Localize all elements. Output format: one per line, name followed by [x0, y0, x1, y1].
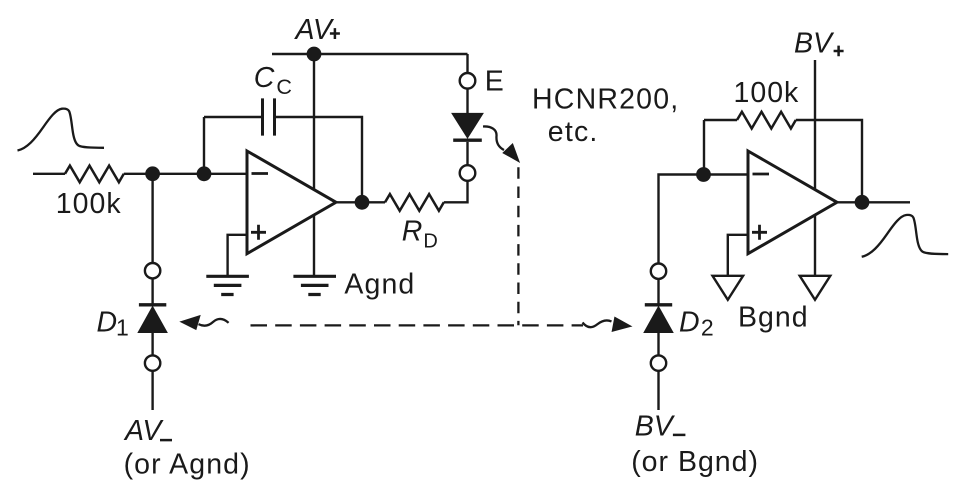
op-amp U2 plus sign: [752, 225, 767, 240]
wire op-amp U2 output: [837, 201, 910, 203]
resistor R_D: [385, 194, 444, 211]
ground arrow G4 (Bgnd): [800, 276, 831, 300]
op-amp U2 minus sign: [753, 173, 770, 176]
dashed line vertical (optical coupling): [517, 167, 519, 325]
terminal circle LED bottom: [460, 165, 476, 181]
wire AV+ rail horizontal: [272, 53, 468, 55]
node inverting input dot U2: [696, 167, 711, 182]
svg-text:E: E: [485, 66, 504, 98]
capacitor C_C feedback wire left: [204, 117, 263, 174]
svg-text:2: 2: [701, 315, 714, 341]
photodiode D1 triangle: [139, 308, 166, 332]
resistor 100k feedback wire right: [796, 120, 862, 202]
output waveform squiggle: [862, 215, 949, 257]
photodiode D2 cathode bar: [645, 303, 672, 306]
svg-text:BV: BV: [794, 28, 835, 60]
wire op-amp output: [336, 201, 385, 203]
svg-text:D: D: [679, 306, 700, 338]
svg-text:(or Agnd): (or Agnd): [124, 448, 251, 480]
op-amp U1: [247, 151, 336, 254]
wire AV+ rail vertical through op-amp: [313, 54, 315, 276]
wire input left: [33, 173, 65, 175]
svg-text:C: C: [276, 75, 292, 99]
node junction dot B: [197, 166, 212, 181]
wire non-inverting input U2 to ground: [728, 235, 748, 275]
wire non-inverting input to ground: [228, 235, 247, 276]
svg-text:HCNR200,: HCNR200,: [532, 84, 679, 116]
svg-text:etc.: etc.: [548, 116, 599, 148]
op-amp U1 minus sign: [252, 172, 269, 175]
terminal circle D1 bottom: [145, 355, 160, 370]
wire D2 to bottom circle: [657, 332, 659, 355]
svg-text:D: D: [97, 306, 118, 338]
resistor 100k input: [65, 166, 124, 183]
capacitor C_C plates: [263, 98, 275, 135]
svg-text:1: 1: [116, 315, 129, 341]
wire D2 bottom lead: [657, 371, 659, 410]
arrowhead down-right: [504, 144, 519, 161]
op-amp U1 plus sign: [251, 225, 266, 240]
photodiode D1 cathode bar: [139, 303, 166, 306]
input waveform squiggle: [18, 109, 105, 151]
terminal circle LED top: [460, 73, 476, 89]
svg-text:AV: AV: [294, 14, 335, 46]
svg-text:Agnd: Agnd: [344, 268, 415, 300]
node AV+ dot: [307, 47, 322, 62]
node junction dot A: [145, 166, 160, 181]
wire D1 branch vertical: [151, 174, 153, 263]
dashed line horizontal (optical coupling): [251, 324, 584, 326]
wire input node to op-amp: [124, 173, 247, 175]
node output dot U1: [355, 195, 370, 210]
ground G1: [206, 276, 249, 294]
node output dot U2: [855, 195, 870, 210]
wire inverting input U2: [704, 173, 749, 175]
svg-text:(or Bgnd): (or Bgnd): [631, 446, 759, 478]
LED E cathode bar: [453, 138, 482, 141]
wire D1 to bottom circle: [151, 332, 153, 355]
svg-text:Bgnd: Bgnd: [738, 301, 809, 333]
resistor 100k feedback: [737, 112, 796, 129]
wire LED anode lead: [466, 54, 468, 114]
squiggle arrow to D1: [199, 319, 229, 326]
wire circle to D1: [151, 278, 153, 304]
svg-text:R: R: [402, 216, 423, 248]
squiggle arrow to D2: [583, 321, 612, 328]
LED E triangle: [453, 114, 482, 137]
arrowhead right at D2: [613, 318, 631, 331]
terminal circle D2 top: [651, 264, 666, 279]
wire R_D to LED: [444, 181, 468, 203]
wire D2 branch horizontal: [659, 175, 704, 264]
arrowhead left at D1: [181, 316, 199, 329]
svg-text:100k: 100k: [734, 77, 800, 109]
wire BV+ rail vertical: [814, 60, 816, 276]
capacitor C_C feedback wire right: [275, 117, 363, 202]
svg-text:C: C: [254, 62, 275, 94]
wire D1 bottom lead: [151, 371, 153, 410]
wire LED cathode lead: [466, 142, 468, 165]
svg-text:D: D: [423, 231, 437, 253]
svg-text:BV: BV: [635, 411, 676, 443]
ground G2 (Agnd under op-amp): [293, 276, 336, 294]
squiggle arrow from LED to dashed line: [483, 126, 504, 150]
svg-text:100k: 100k: [56, 188, 122, 220]
photodiode D2 triangle: [645, 308, 672, 332]
ground arrow G3: [713, 276, 744, 300]
resistor 100k feedback wire left: [704, 120, 737, 175]
wire circle to D2: [657, 279, 659, 305]
terminal circle D2 bottom: [651, 355, 666, 370]
svg-text:AV: AV: [123, 415, 164, 447]
terminal circle D1 top: [145, 263, 160, 278]
op-amp U2: [748, 151, 837, 254]
